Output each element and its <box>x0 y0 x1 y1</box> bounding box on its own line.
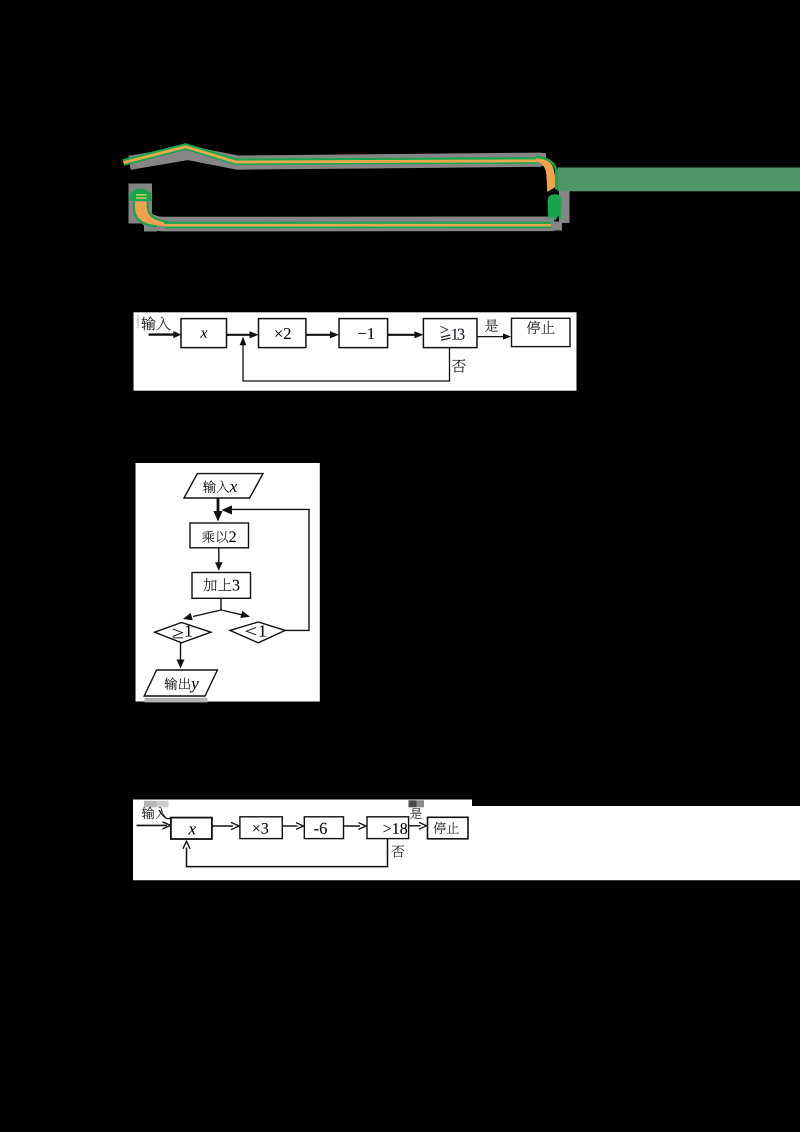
box -6 <box>304 817 343 839</box>
box x (panel 3) <box>171 818 212 839</box>
ribbon right corner thick orange pen stroke <box>536 157 555 192</box>
label 否 (no) <box>452 359 466 372</box>
box ×3 <box>240 817 282 839</box>
faint gray sliver at panel 1 left edge <box>137 315 139 329</box>
label 输入 (input) <box>141 317 155 331</box>
thick arrow down from 输入x <box>217 498 220 513</box>
label 是 (yes) <box>410 808 421 819</box>
arrow x to ×2 <box>227 334 251 336</box>
feedback loop wire <box>243 344 450 381</box>
pen body orange curve into bottom edge <box>135 202 172 227</box>
arrow into box x <box>149 333 174 335</box>
box ×2 <box>259 319 306 348</box>
ribbon gray shadow behind right corner <box>538 153 546 166</box>
label 输入 (input) <box>142 807 155 819</box>
ribbon gray shadow along bottom edge <box>142 204 554 224</box>
box >18 <box>367 817 409 839</box>
arrow -6 to >18 <box>344 825 361 827</box>
parallelogram 输出y <box>144 670 217 696</box>
gray blocks above 输入 <box>144 801 157 808</box>
loop return wire from right <box>231 509 309 630</box>
feedback loop wire panel 3 <box>187 839 388 867</box>
box ≥13 <box>423 319 477 348</box>
arrow x to ×3 <box>212 825 233 827</box>
parallelogram 输入x <box>184 474 263 498</box>
ribbon roof + top edge green/orange/green sandwich <box>124 147 538 163</box>
arrow ×3 to -6 <box>282 825 297 827</box>
diamond ≥1 <box>155 623 211 643</box>
arrow into box x <box>137 824 168 826</box>
panel 3 white background (stepped top edge) <box>133 800 800 881</box>
box 加上3 <box>192 573 251 599</box>
arrow −1 to ≥13 <box>388 334 415 336</box>
box 乘以2 <box>190 523 249 548</box>
bright green brush tip <box>548 194 562 221</box>
label 否 (no) <box>392 845 404 857</box>
arrow >18 to 停止 <box>409 825 421 827</box>
medium green band to right edge <box>558 168 800 192</box>
label 是 (yes) <box>485 319 498 331</box>
pen cap (green dome) <box>130 189 152 201</box>
box x <box>181 319 227 348</box>
ribbon gray strip right of brush tip <box>559 191 570 224</box>
box 停止 (stop) panel 3 <box>428 817 469 839</box>
diamond <1 <box>230 622 285 643</box>
gray stub right of bottom edge end <box>552 222 562 231</box>
ribbon gray shadow along roof and top edge <box>130 153 542 163</box>
pen cap stripes <box>136 194 147 196</box>
panel 2 gray bar bottom-left <box>145 698 208 703</box>
arrow ≥13 to 停止 <box>477 336 504 338</box>
bottom edge green/orange/green sandwich <box>164 222 551 229</box>
gray shadow rect behind pen <box>129 184 153 224</box>
panel 2 white background <box>136 463 320 702</box>
panel 1 white background <box>134 312 577 390</box>
branch wire to two diamonds <box>220 598 222 610</box>
box 停止 (stop) <box>512 318 571 346</box>
arrow ×2 to −1 <box>306 334 331 336</box>
arrow to 加上3 <box>218 548 220 564</box>
swash from 入 to box <box>159 810 172 819</box>
gray block above 是 <box>409 800 417 807</box>
box −1 <box>339 319 388 348</box>
arrow down to 输出y <box>180 643 182 661</box>
